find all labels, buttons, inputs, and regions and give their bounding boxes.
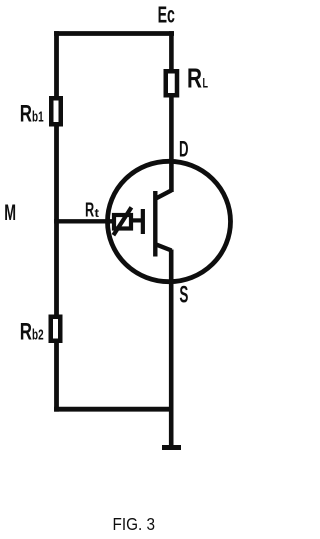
svg-text:b1: b1 <box>32 109 44 126</box>
wire left rail <box>54 31 59 412</box>
svg-text:FIG. 3: FIG. 3 <box>113 514 156 534</box>
transistor Q1 drain diagonal <box>155 190 171 199</box>
svg-text:S: S <box>179 281 188 308</box>
svg-text:b2: b2 <box>32 327 44 344</box>
wire drain lead <box>169 93 174 192</box>
wire gate stub <box>128 218 141 222</box>
svg-text:M: M <box>4 200 16 225</box>
svg-text:D: D <box>179 137 189 162</box>
svg-text:L: L <box>203 75 209 91</box>
resistor RL <box>166 63 209 96</box>
transistor Q1 gate bar <box>141 209 145 234</box>
svg-text:t: t <box>95 206 100 220</box>
wire gate from left rail <box>54 219 116 223</box>
svg-text:R: R <box>187 63 202 94</box>
transistor Q1 source diagonal <box>156 244 172 250</box>
resistor Rb2 <box>20 317 60 346</box>
ground <box>162 445 181 450</box>
svg-text:R: R <box>85 200 95 222</box>
wire right rail top <box>169 31 174 74</box>
resistor Rb1 <box>20 98 61 127</box>
wire top rail <box>54 31 174 36</box>
wire source lead <box>169 250 174 448</box>
svg-text:R: R <box>20 319 32 346</box>
svg-text:Ec: Ec <box>158 1 175 27</box>
transistor Q1 channel <box>153 191 157 257</box>
svg-text:R: R <box>20 101 32 128</box>
wire bottom rail <box>54 407 173 412</box>
transistor Q1 circle <box>108 161 231 281</box>
thermistor Rt <box>85 200 131 236</box>
